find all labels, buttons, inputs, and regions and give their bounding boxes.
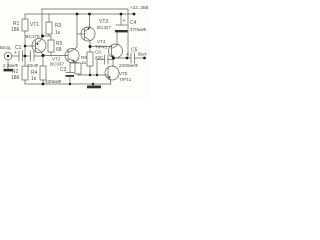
transistor VT4 (109, 44, 123, 58)
capacitor C2 (31, 51, 35, 61)
svg-text:33нФ: 33нФ (27, 63, 39, 68)
node R4 ground (42, 83, 45, 86)
resistor R3 (48, 14, 50, 22)
ground stub main (92, 84, 94, 86)
svg-text:330мкФ: 330мкФ (45, 79, 62, 84)
svg-text:470мкФ: 470мкФ (130, 27, 147, 32)
svg-text:BC179: BC179 (26, 34, 40, 39)
capacitor C5 (131, 53, 135, 63)
resistor R5 (50, 36, 52, 40)
wire VT3 collector to VT4 base (90, 46, 112, 48)
resistor R6 (89, 47, 91, 53)
VT4 emitter arrow (111, 55, 114, 58)
node VT3 emitter rail (88, 13, 91, 16)
svg-text:VT5: VT5 (119, 71, 128, 76)
node feedback output (126, 57, 129, 60)
wire C2 to collector node (34, 55, 43, 57)
transistor VT5 (105, 66, 119, 80)
wire VT1 collector to VT2 base (43, 55, 68, 57)
output node wire (114, 57, 132, 59)
resistor R4 (42, 56, 44, 67)
wire supply rail (25, 13, 134, 15)
node VT1 base (24, 45, 27, 48)
node ground stub (92, 83, 94, 85)
svg-text:BC337: BC337 (50, 62, 64, 67)
node output terminal (143, 57, 146, 60)
wire feedback top line (42, 8, 128, 10)
node C6 base line (96, 74, 98, 76)
ground symbol input (4, 69, 14, 72)
node VT2 collector rail (76, 13, 79, 16)
wire input to C1 (12, 55, 19, 57)
svg-text:220: 220 (95, 55, 103, 60)
wire R1 to base node (24, 31, 26, 66)
svg-text:18К: 18К (11, 27, 20, 33)
resistor R1 (24, 14, 26, 19)
svg-text:TIP41: TIP41 (119, 77, 132, 82)
VT3 emitter arrow (87, 28, 90, 30)
svg-text:C3: C3 (60, 67, 67, 73)
svg-text:R3: R3 (55, 23, 62, 29)
capacitor C6 (105, 55, 109, 64)
svg-text:+: + (14, 50, 17, 56)
svg-text:2200мкФ: 2200мкФ (119, 63, 138, 68)
svg-text:C4: C4 (130, 20, 137, 26)
input ground stub (7, 60, 9, 69)
svg-text:Вых: Вых (138, 52, 147, 57)
svg-text:68: 68 (56, 47, 62, 53)
svg-text:+: + (126, 52, 129, 58)
capacitor C4 (120, 14, 122, 25)
svg-text:VT4: VT4 (97, 39, 106, 44)
node C4 rail (120, 13, 123, 16)
node VT3 collector (89, 45, 92, 48)
svg-text:+22..35В: +22..35В (130, 5, 149, 10)
svg-text:C6: C6 (95, 50, 101, 55)
resistor R7 (75, 63, 81, 74)
wire C1 to node (23, 55, 31, 57)
svg-text:18К: 18К (11, 75, 20, 81)
ground rail (25, 83, 111, 85)
node supply terminal (133, 13, 136, 16)
node VT1 emitter (41, 35, 44, 38)
wire feedback left vertical (41, 9, 43, 36)
capacitor C1 (19, 51, 23, 61)
svg-text:VT1: VT1 (30, 22, 39, 28)
wire VT5 base line (78, 74, 108, 76)
svg-text:C5: C5 (131, 48, 138, 54)
wire feedback right vertical (127, 9, 129, 58)
svg-text:1к: 1к (31, 76, 37, 82)
VT5 emitter arrow (108, 76, 111, 78)
svg-text:+: + (123, 18, 126, 24)
input terminal (4, 52, 12, 60)
VT2 emitter arrow (72, 59, 75, 62)
transistor VT2 (65, 49, 79, 63)
node C3 ground (69, 83, 71, 85)
capacitor C3 (70, 63, 75, 73)
ground symbol main (87, 86, 101, 89)
node C1 C2 junction (24, 55, 27, 58)
transistor VT3 (81, 27, 95, 41)
svg-text:2.2мкФ: 2.2мкФ (3, 63, 19, 68)
node input center (7, 55, 9, 57)
node output (112, 57, 115, 60)
node VT1 collector (42, 54, 45, 57)
resistor R2 (22, 66, 28, 80)
VT1 emitter arrow (36, 43, 39, 45)
svg-text:Вход: Вход (0, 45, 11, 50)
svg-text:1к: 1к (55, 30, 61, 36)
svg-text:BC327: BC327 (97, 25, 111, 30)
transistor VT1 (32, 39, 46, 53)
node R6 base line (89, 74, 91, 76)
wire VT2 emitter to R7 (74, 62, 78, 64)
wire VT1 emitter node (42, 35, 51, 37)
